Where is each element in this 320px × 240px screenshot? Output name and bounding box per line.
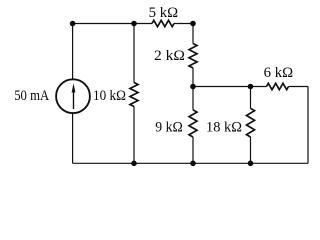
wire right rail <box>307 87 309 164</box>
wire middle branch top <box>192 24 194 44</box>
node dot bottom 18k <box>248 161 254 167</box>
resistor R1 5 kOhm <box>152 20 174 26</box>
svg-text:50 mA: 50 mA <box>14 88 49 104</box>
wire middle branch mid <box>192 68 194 110</box>
wire middle horizontal <box>193 86 267 88</box>
svg-text:2 kΩ: 2 kΩ <box>154 48 185 64</box>
resistor R6 18 kOhm <box>247 108 255 137</box>
wire left rail lower <box>72 113 74 163</box>
wire left rail upper <box>72 24 74 80</box>
node dot top 10k <box>131 21 137 27</box>
wire middle branch bottom <box>192 137 194 163</box>
node dot bottom middle <box>190 161 196 167</box>
svg-text:5 kΩ: 5 kΩ <box>149 5 179 21</box>
svg-text:18 kΩ: 18 kΩ <box>206 120 242 136</box>
resistor R5 6 kOhm <box>267 83 289 89</box>
resistor R2 10 kOhm <box>130 83 138 107</box>
wire 18k branch lower <box>250 137 252 163</box>
current source I1 circle <box>56 79 90 113</box>
wire 18k branch upper <box>250 87 252 109</box>
node dot top-right <box>190 21 196 27</box>
resistor R3 2 kOhm <box>189 44 197 69</box>
wire top-left horizontal <box>73 23 152 25</box>
wire top-right horizontal <box>174 23 193 25</box>
wire middle horizontal right <box>289 86 309 88</box>
resistor R4 9 kOhm <box>189 110 197 137</box>
wire 10k branch lower <box>133 107 135 164</box>
node dot middle 18k <box>248 84 254 90</box>
svg-text:6 kΩ: 6 kΩ <box>264 65 294 81</box>
node dot middle <box>190 84 196 90</box>
wire 10k branch upper <box>133 24 135 83</box>
wire bottom rail <box>73 162 308 164</box>
svg-text:9 kΩ: 9 kΩ <box>155 120 183 136</box>
node dot top-left <box>70 21 76 27</box>
node dot bottom 10k <box>131 161 137 167</box>
svg-text:10 kΩ: 10 kΩ <box>93 88 126 104</box>
current source arrow <box>72 83 76 109</box>
